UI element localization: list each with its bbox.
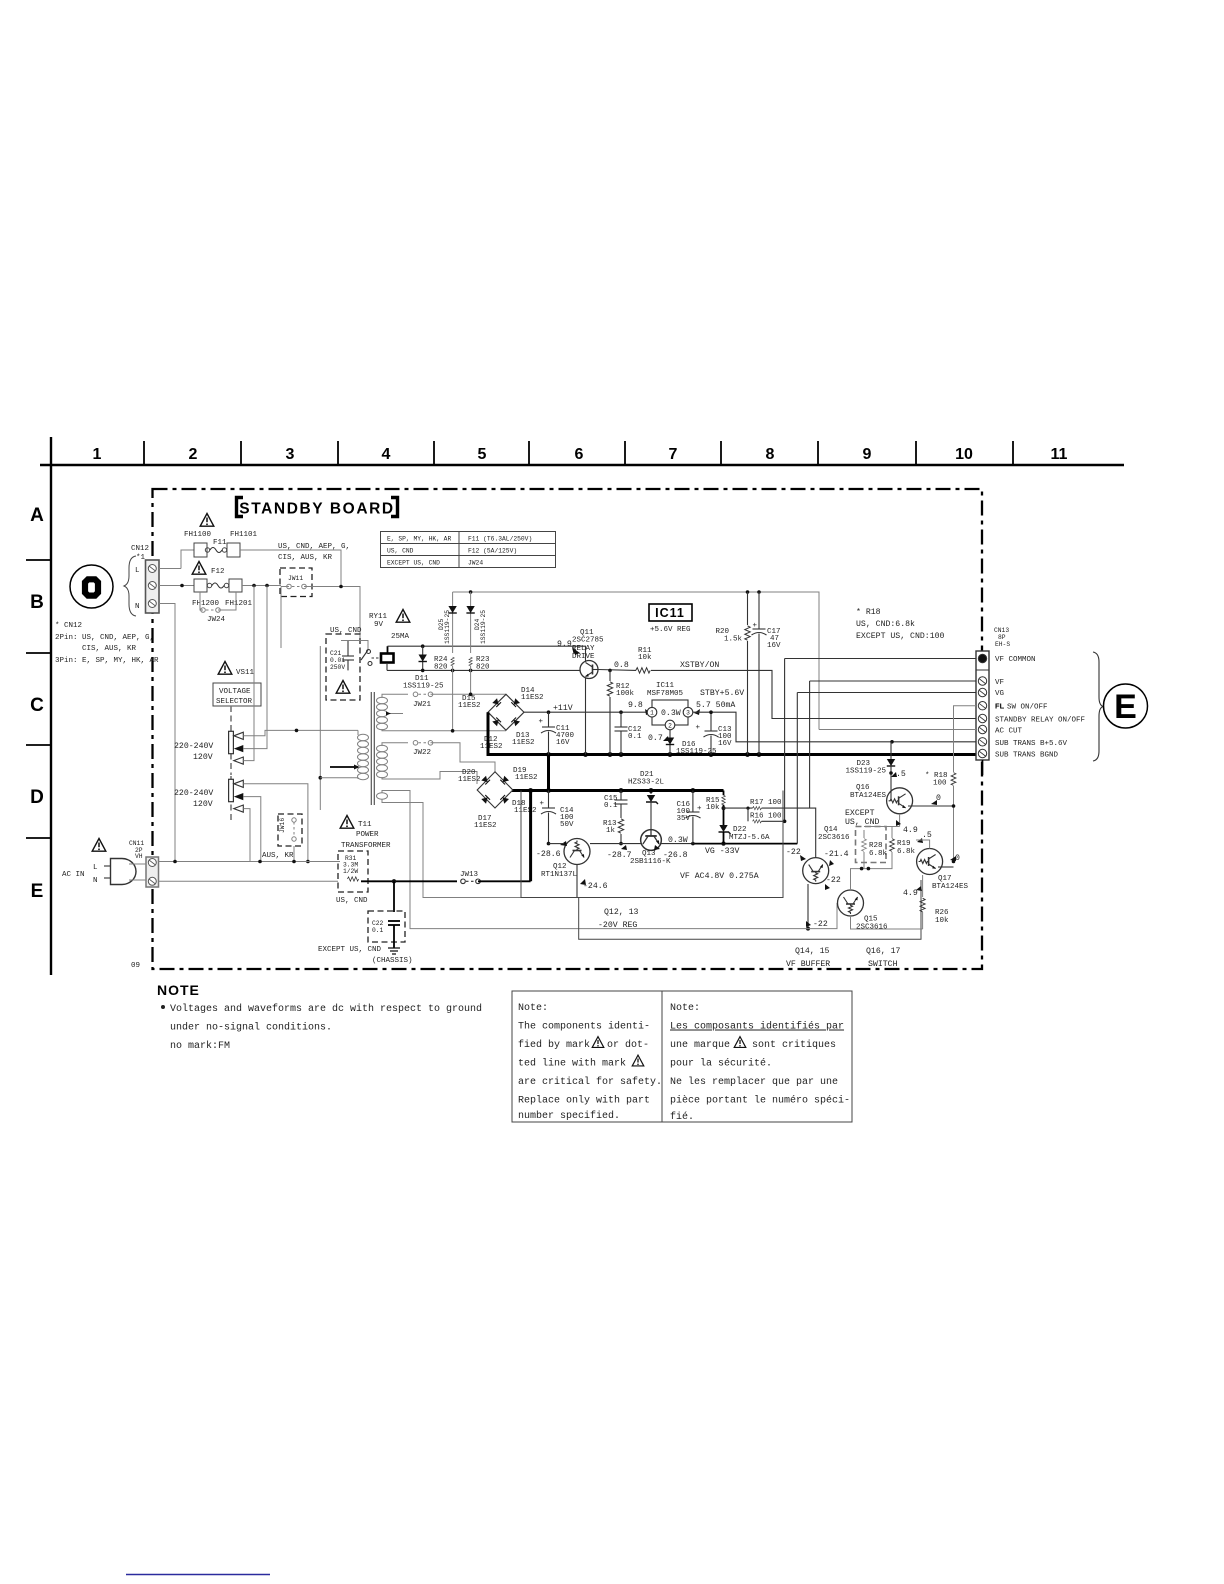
svg-text:F11 (T6.3AL/250V): F11 (T6.3AL/250V): [468, 536, 532, 543]
EXCEPT US CND label: [845, 809, 879, 827]
svg-text:VG: VG: [995, 690, 1005, 698]
CN12 footnote: [55, 622, 159, 665]
svg-text:1SS119-25: 1SS119-25: [444, 610, 451, 644]
svg-text:0.3W: 0.3W: [661, 709, 681, 718]
svg-text:no mark:FM: no mark:FM: [170, 1040, 230, 1052]
svg-text:+: +: [695, 724, 700, 732]
svg-text:VS11: VS11: [236, 669, 255, 677]
svg-text:3Pin: E, SP, MY, HK, AR: 3Pin: E, SP, MY, HK, AR: [55, 657, 159, 665]
svg-text:FL: FL: [995, 702, 1005, 711]
title STANDBY BOARD: [237, 498, 398, 518]
transistor Q17: [903, 831, 969, 898]
svg-text:* CN12: * CN12: [55, 622, 82, 630]
wire CN11 pin1 AUS KR rail: [159, 860, 341, 864]
CN12 connector: [131, 545, 159, 613]
wire CN11 pin2 to R31: [159, 880, 339, 882]
svg-text:35V: 35V: [676, 815, 690, 823]
Q11 emitter to bus: [585, 678, 587, 755]
thick -20V bus: [512, 755, 724, 793]
svg-text:100k: 100k: [616, 690, 635, 698]
warning triangle above FH1100: [200, 514, 214, 527]
svg-text:STANDBY RELAY ON/OFF: STANDBY RELAY ON/OFF: [995, 717, 1085, 725]
svg-text:VF: VF: [995, 679, 1004, 687]
svg-text:10k: 10k: [706, 804, 720, 812]
svg-text:-21.4: -21.4: [824, 850, 849, 859]
svg-text:N: N: [135, 603, 140, 611]
note US CND AEP: [278, 543, 350, 562]
T11 POWER TRANSFORMER label: [341, 821, 391, 850]
0.7 label: [648, 734, 669, 743]
note box english text: [518, 1003, 662, 1122]
svg-text:L: L: [135, 567, 140, 575]
capacitor C14: [539, 791, 574, 846]
svg-text:120V: 120V: [193, 753, 213, 762]
svg-text:220-240V: 220-240V: [174, 789, 213, 798]
svg-text:SW ON/OFF: SW ON/OFF: [1007, 704, 1048, 712]
jumper JW24: [200, 592, 236, 624]
Q17 wiring: [916, 840, 955, 897]
section labels Q14 Q15: [786, 947, 830, 969]
selector wiring: [243, 586, 358, 864]
svg-text:Q13: Q13: [642, 850, 656, 858]
svg-text:8P: 8P: [998, 634, 1006, 641]
VOLTAGE SELECTOR box: [213, 683, 261, 706]
svg-text:9.8: 9.8: [628, 701, 643, 710]
svg-text:-22: -22: [813, 920, 828, 929]
svg-text:B: B: [30, 592, 44, 613]
svg-text:US, CND, AEP, G,: US, CND, AEP, G,: [278, 543, 350, 551]
svg-text:Q12, 13: Q12, 13: [604, 908, 638, 917]
CN13 pin labels: [995, 656, 1085, 760]
resistor R26: [920, 898, 949, 929]
svg-text:number specified.: number specified.: [518, 1110, 620, 1122]
svg-text:US, CND: US, CND: [336, 897, 368, 905]
box Q12 13: [579, 880, 921, 939]
Q11 base node: [598, 661, 636, 672]
voltage selector 2: [174, 776, 243, 822]
note bullet text: [161, 1003, 482, 1052]
svg-text:BTA124ES: BTA124ES: [850, 792, 887, 800]
svg-text:R28: R28: [869, 842, 883, 850]
warning triangle in french note: [734, 1037, 746, 1048]
thick wire R31 to JW13: [361, 879, 457, 883]
svg-text:CN12: CN12: [131, 545, 149, 553]
wire VG: [797, 692, 976, 694]
svg-text:CIS, AUS, KR: CIS, AUS, KR: [82, 645, 137, 653]
transistor Q14: [786, 826, 850, 890]
top wire rail y591: [453, 590, 819, 729]
US CND dashed box C21: [326, 627, 362, 700]
AC plug: [93, 859, 136, 886]
svg-text:4.9: 4.9: [903, 826, 918, 835]
svg-text:4: 4: [382, 446, 391, 463]
note box french text: [670, 1003, 850, 1123]
svg-text:9V: 9V: [374, 621, 384, 629]
fuse holder FH1200 / FH1201: [159, 579, 281, 608]
svg-text:1SS119-25: 1SS119-25: [845, 768, 886, 776]
svg-text:under no-signal conditions.: under no-signal conditions.: [170, 1022, 332, 1034]
svg-text:16V: 16V: [767, 642, 781, 650]
svg-text:Q15: Q15: [864, 916, 878, 924]
resistor R13: [603, 812, 624, 845]
selector feed wires from fuses: [280, 587, 282, 649]
Q16 emitter node 0: [908, 794, 955, 808]
svg-text:pièce portant le numéro spéci-: pièce portant le numéro spéci-: [670, 1095, 850, 1107]
svg-text:RY11: RY11: [369, 613, 388, 621]
CN13 connector: [976, 627, 1010, 775]
svg-text:CN11: CN11: [129, 840, 144, 847]
resistor R18: [925, 764, 956, 862]
svg-text:25MA: 25MA: [391, 633, 410, 641]
svg-text:The components identi-: The components identi-: [518, 1021, 650, 1033]
svg-text:FH1200: FH1200: [192, 600, 220, 608]
svg-text:3: 3: [286, 446, 295, 463]
top ruler line: [40, 464, 1124, 466]
svg-text:POWER: POWER: [356, 831, 379, 839]
svg-text:D: D: [30, 787, 44, 808]
svg-text:EXCEPT: EXCEPT: [845, 809, 875, 818]
svg-text:50V: 50V: [560, 821, 574, 829]
svg-text:MSF78M05: MSF78M05: [647, 690, 684, 698]
svg-text:JW21: JW21: [413, 701, 432, 709]
svg-text:BTA124ES: BTA124ES: [932, 883, 969, 891]
warning triangle F12: [192, 562, 206, 575]
svg-text:L: L: [93, 864, 98, 872]
svg-text:9: 9: [863, 446, 872, 463]
wire VF: [810, 680, 976, 682]
svg-text:N: N: [93, 877, 98, 885]
svg-text:C21: C21: [330, 650, 342, 657]
svg-text:sont critiques: sont critiques: [752, 1039, 836, 1051]
transistor Q16: [850, 771, 913, 814]
left ruler line: [50, 437, 52, 975]
diode D16: [666, 730, 717, 756]
circled E: [1104, 684, 1148, 728]
svg-text:120V: 120V: [193, 800, 213, 809]
transistor Q12 digital: [536, 839, 608, 898]
svg-text:FH1100: FH1100: [184, 531, 212, 539]
diode D25: [438, 606, 457, 644]
svg-text:AC IN: AC IN: [62, 871, 85, 879]
resistor R11: [636, 647, 652, 673]
svg-text:820: 820: [434, 664, 448, 672]
wire JW11 to relay contact: [341, 587, 368, 649]
svg-text:7: 7: [669, 446, 678, 463]
svg-text:VH: VH: [135, 853, 143, 860]
svg-text:JW16: JW16: [279, 818, 286, 833]
svg-text:2SC3616: 2SC3616: [818, 834, 850, 842]
capacitor C13: [695, 710, 732, 754]
svg-text:.5: .5: [922, 831, 932, 840]
svg-text:11ES2: 11ES2: [458, 702, 481, 710]
warning triangle RY11: [396, 610, 410, 623]
wire relay bottom to Q11: [387, 669, 580, 673]
svg-text:4.9: 4.9: [903, 889, 918, 898]
svg-text:FH1201: FH1201: [225, 600, 253, 608]
svg-text:(CHASSIS): (CHASSIS): [372, 957, 413, 965]
svg-text:1SS119-25: 1SS119-25: [403, 683, 444, 691]
svg-text:Note:: Note:: [518, 1003, 548, 1014]
blue link line: [126, 1574, 270, 1576]
vertical VG down: [796, 693, 798, 844]
resistor R12: [607, 670, 634, 754]
warning triangle AC: [92, 839, 106, 852]
svg-text:EXCEPT US, CND:100: EXCEPT US, CND:100: [856, 632, 945, 641]
svg-text:JW24: JW24: [468, 560, 483, 567]
svg-text:11ES2: 11ES2: [512, 739, 535, 747]
svg-text:-28.7: -28.7: [607, 851, 632, 860]
vertical VF down: [809, 681, 811, 808]
svg-text:6: 6: [575, 446, 584, 463]
svg-text:E: E: [31, 881, 44, 902]
Q16 base down 4.9: [896, 814, 918, 835]
svg-text:AUS, KR: AUS, KR: [262, 852, 294, 860]
svg-text:Replace only with part: Replace only with part: [518, 1095, 650, 1107]
svg-text:RT1N137L: RT1N137L: [541, 871, 578, 879]
svg-text:Q16, 17: Q16, 17: [866, 947, 900, 956]
svg-text:MTZJ-5.6A: MTZJ-5.6A: [729, 834, 770, 842]
Q14 emitter down: [806, 884, 828, 931]
svg-text:STANDBY BOARD: STANDBY BOARD: [239, 501, 394, 518]
svg-text:US, CND: US, CND: [387, 548, 414, 555]
warning triangle T11: [340, 816, 354, 829]
svg-text:F12: F12: [211, 568, 225, 576]
svg-text:11: 11: [1051, 446, 1068, 463]
svg-text:R26: R26: [935, 909, 949, 917]
warning triangle VS11: [218, 662, 232, 675]
IC11 regulator: [628, 682, 744, 730]
svg-text:VG -33V: VG -33V: [705, 847, 739, 856]
vertical VF COMMON down: [784, 659, 786, 822]
svg-text:2SC3616: 2SC3616: [856, 923, 888, 931]
svg-text:6.8k: 6.8k: [869, 850, 888, 858]
transformer primary winding: [330, 730, 369, 779]
transformer secondary top: [377, 694, 507, 731]
resistor R20: [715, 592, 750, 755]
svg-text:-22: -22: [826, 876, 841, 885]
svg-text:EXCEPT US, CND: EXCEPT US, CND: [387, 560, 440, 567]
svg-text:-26.8: -26.8: [663, 851, 688, 860]
svg-text:100: 100: [933, 780, 947, 788]
svg-text:820: 820: [476, 664, 490, 672]
transformer T11 core: [371, 692, 374, 805]
svg-text:-24.6: -24.6: [583, 882, 608, 891]
capacitor C16: [676, 791, 702, 844]
svg-text:.5: .5: [896, 770, 906, 779]
svg-text:SWITCH: SWITCH: [868, 960, 898, 969]
svg-text:FH1101: FH1101: [230, 531, 258, 539]
svg-text:16V: 16V: [718, 740, 732, 748]
svg-text:2Pin: US, CND, AEP, G,: 2Pin: US, CND, AEP, G,: [55, 634, 154, 642]
svg-text:5: 5: [478, 446, 487, 463]
svg-text:0.1: 0.1: [604, 802, 618, 810]
svg-text:*1: *1: [136, 554, 146, 562]
svg-text:US, CND:6.8k: US, CND:6.8k: [856, 619, 915, 629]
svg-text:STBY+5.6V: STBY+5.6V: [700, 689, 744, 698]
circled O connector mark: [70, 565, 113, 608]
svg-text:2: 2: [189, 446, 198, 463]
jumper JW16 dashed box: [278, 814, 302, 862]
-22 rail: [601, 903, 837, 929]
svg-text:NOTE: NOTE: [157, 982, 200, 998]
svg-text:VF AC4.8V 0.275A: VF AC4.8V 0.275A: [680, 872, 759, 881]
warning triangle in english note 1: [592, 1037, 604, 1048]
svg-text:EH-S: EH-S: [995, 641, 1010, 648]
svg-text:1k: 1k: [606, 827, 616, 835]
svg-text:ted line with mark: ted line with mark: [518, 1058, 626, 1070]
VG -33V rail: [621, 841, 797, 856]
thick wire bridge2 to JW13: [529, 791, 532, 882]
svg-text:US, CND: US, CND: [845, 818, 879, 827]
svg-text:09: 09: [131, 962, 140, 970]
svg-text:R19: R19: [897, 840, 911, 848]
svg-text:3: 3: [686, 710, 690, 717]
svg-text:11ES2: 11ES2: [480, 743, 503, 751]
svg-text:1/2W: 1/2W: [343, 868, 358, 875]
svg-text:SUB TRANS BGND: SUB TRANS BGND: [995, 752, 1059, 760]
svg-text:6.8k: 6.8k: [897, 848, 916, 856]
diode D24: [466, 606, 487, 644]
svg-text:9.9: 9.9: [557, 640, 572, 649]
svg-text:11ES2: 11ES2: [521, 694, 544, 702]
resistor R15: [706, 791, 726, 826]
svg-text:8: 8: [766, 446, 775, 463]
ground bus thick: [488, 712, 976, 757]
svg-text:0.7: 0.7: [648, 734, 663, 743]
svg-text:5.7 50mA: 5.7 50mA: [696, 701, 735, 710]
svg-text:E, SP, MY, HK, AR: E, SP, MY, HK, AR: [387, 536, 451, 543]
svg-text:A: A: [30, 505, 44, 526]
svg-text:-22: -22: [786, 848, 801, 857]
wire relay top rail: [388, 644, 586, 662]
IC11 title box: [649, 604, 692, 634]
svg-text:C22: C22: [372, 920, 384, 927]
svg-text:Les composants identifiés par: Les composants identifiés par: [670, 1021, 844, 1033]
svg-text:2SC2785: 2SC2785: [572, 637, 604, 645]
fuse holder FH1100 / F11 / FH1101: [159, 531, 341, 587]
svg-text:11ES2: 11ES2: [474, 822, 497, 830]
fuse table: [381, 532, 556, 568]
svg-text:Q14, 15: Q14, 15: [795, 947, 829, 956]
svg-text:250V: 250V: [330, 664, 345, 671]
svg-text:pour la sécurité.: pour la sécurité.: [670, 1058, 772, 1070]
svg-text:TRANSFORMER: TRANSFORMER: [341, 842, 391, 850]
svg-text:+: +: [539, 800, 544, 808]
relay coil RY11: [369, 613, 410, 670]
svg-text:+: +: [752, 622, 757, 630]
svg-text:R16 100: R16 100: [750, 813, 782, 821]
transistor Q11 relay drive: [557, 629, 604, 679]
svg-text:JW11: JW11: [288, 575, 303, 582]
row boundary ticks: [26, 559, 51, 561]
svg-text:Q17: Q17: [938, 875, 952, 883]
STBY wire pin3 to CN13 pin7: [693, 712, 976, 743]
capacitor C17: [752, 592, 782, 755]
svg-text:SELECTOR: SELECTOR: [216, 698, 253, 706]
svg-text:IC11: IC11: [655, 606, 685, 620]
jumper JW21: [413, 692, 506, 709]
Q12 base rail: [549, 843, 565, 845]
svg-text:0.8: 0.8: [614, 661, 629, 670]
box VF reg area: [521, 791, 783, 898]
jumper JW22: [413, 741, 495, 772]
svg-text:+: +: [697, 805, 702, 813]
svg-text:JW13: JW13: [460, 871, 479, 879]
brace to CN12: [124, 556, 136, 616]
C22 dashed box: [318, 881, 413, 965]
svg-text:C: C: [30, 695, 44, 716]
svg-text:IC11: IC11: [656, 682, 675, 690]
warning triangle in C21 box: [336, 681, 350, 694]
wire AC CUT: [819, 729, 976, 731]
svg-text:fied by mark: fied by mark: [518, 1039, 590, 1051]
svg-text:1: 1: [93, 446, 102, 463]
jumper JW13: [460, 871, 531, 884]
voltage selector 1: [174, 706, 243, 775]
svg-text:VOLTAGE: VOLTAGE: [219, 688, 251, 696]
transistor Q13: [607, 830, 688, 866]
capacitor C11: [538, 712, 574, 754]
svg-text:or dot-: or dot-: [607, 1039, 649, 1051]
svg-text:R17 100: R17 100: [750, 799, 782, 807]
svg-text:11ES2: 11ES2: [458, 776, 481, 784]
svg-text:Voltages and waveforms are dc: Voltages and waveforms are dc with respe…: [170, 1003, 482, 1015]
warning triangle in english note 2: [632, 1055, 644, 1066]
Q12 13 -20V REG label: [598, 908, 638, 930]
svg-text:11ES2: 11ES2: [515, 774, 538, 782]
svg-text:XSTBY/ON: XSTBY/ON: [680, 660, 719, 670]
resistors R17 R16 parallel: [724, 799, 816, 858]
zener D21: [628, 771, 665, 829]
diode D23: [845, 742, 905, 779]
+11V wire: [524, 710, 648, 714]
section labels Q16 Q17: [866, 947, 900, 969]
svg-text:AC CUT: AC CUT: [995, 728, 1023, 736]
svg-text:CN13: CN13: [994, 627, 1009, 634]
transformer secondary mid: [377, 743, 478, 784]
svg-text:VF BUFFER: VF BUFFER: [786, 960, 830, 969]
svg-text:2: 2: [668, 723, 672, 730]
svg-text:JW24: JW24: [207, 616, 226, 624]
Q15 wiring: [851, 869, 923, 929]
diode D11: [403, 646, 444, 690]
R28 dashed box: [856, 827, 888, 863]
svg-text:VF COMMON: VF COMMON: [995, 656, 1036, 664]
svg-text:10k: 10k: [935, 917, 949, 925]
svg-text:1SS119-25: 1SS119-25: [480, 610, 487, 644]
svg-text:11ES2: 11ES2: [514, 807, 537, 815]
svg-text:0.1: 0.1: [372, 927, 384, 934]
svg-text:E: E: [1114, 688, 1137, 726]
svg-text:une marque: une marque: [670, 1040, 730, 1051]
relay contact: [341, 641, 372, 666]
svg-text:D22: D22: [733, 826, 747, 834]
XSTBY/ON wire: [651, 660, 976, 719]
svg-text:10: 10: [955, 446, 973, 463]
resistor R24: [434, 656, 454, 731]
zener D22: [719, 825, 771, 844]
svg-text:0.1: 0.1: [628, 733, 642, 741]
bridge rectifier D17-D20: [458, 767, 538, 830]
svg-text:1: 1: [650, 710, 654, 717]
svg-text:SUB TRANS B+5.6V: SUB TRANS B+5.6V: [995, 740, 1068, 748]
svg-text:10k: 10k: [638, 654, 652, 662]
resistor R19: [860, 827, 916, 871]
R31 dashed box: [336, 851, 368, 905]
svg-text:T11: T11: [358, 821, 372, 829]
transistor Q15: [838, 890, 889, 931]
svg-text:Q12: Q12: [553, 863, 567, 871]
